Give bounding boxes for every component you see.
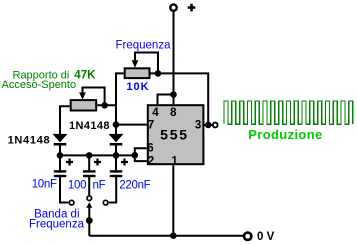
wire pin 6	[135, 148, 147, 155]
node pin6 junction	[132, 152, 139, 159]
wire pin 4 branch	[158, 95, 174, 105]
diode D1 1N4148	[53, 134, 68, 156]
wire 47K left lead down	[60, 106, 70, 134]
potentiometer VR1 10K	[125, 53, 158, 79]
svg-text:6: 6	[147, 143, 153, 155]
switch contact right	[103, 200, 108, 205]
wire capacitor rail	[60, 154, 135, 156]
svg-text:nF: nF	[93, 179, 106, 191]
wire pin 7	[116, 124, 147, 126]
svg-text:Produzione: Produzione	[248, 127, 322, 142]
node rail C2	[86, 152, 93, 159]
capacitor C1 10nF	[54, 155, 73, 202]
node pin1 ground junction	[170, 232, 177, 239]
svg-text:2: 2	[148, 155, 154, 167]
svg-text:100: 100	[68, 179, 86, 191]
switch contact middle	[87, 196, 92, 201]
switch wiper SW1	[86, 202, 92, 236]
IC U1 555	[147, 105, 203, 167]
node wiper dot	[86, 217, 93, 224]
svg-text:220nF: 220nF	[119, 179, 150, 191]
svg-text:0 V: 0 V	[257, 231, 275, 243]
svg-text:Frequenza: Frequenza	[116, 39, 172, 51]
wire 10K right lead to pin 3 net	[151, 73, 209, 125]
svg-text:8: 8	[170, 107, 177, 119]
svg-text:555: 555	[160, 127, 189, 143]
terminal 0V	[244, 231, 275, 243]
node rail D2	[113, 152, 120, 159]
wire pin 2	[135, 155, 147, 161]
svg-text:10nF: 10nF	[32, 179, 57, 191]
svg-text:4: 4	[152, 107, 159, 119]
svg-text:1N4148: 1N4148	[69, 120, 110, 132]
switch contact left	[69, 200, 74, 205]
node 47K wiper junction	[101, 102, 108, 109]
node pin3 junction	[205, 122, 212, 129]
capacitor C3 220nF	[109, 155, 128, 202]
svg-text:Frequenza: Frequenza	[29, 218, 85, 230]
svg-text:10K: 10K	[126, 81, 149, 93]
waveform output	[224, 101, 353, 124]
svg-text:7: 7	[148, 120, 154, 132]
wire supply vertical to pin 8	[173, 11, 175, 104]
node rail D1	[57, 152, 64, 159]
diode D2 1N4148	[109, 134, 124, 156]
svg-text:3: 3	[195, 120, 201, 132]
wire pin 3	[204, 124, 212, 126]
terminal output	[213, 123, 218, 128]
wire pin 1	[172, 165, 174, 236]
svg-text:47K: 47K	[74, 70, 96, 82]
node pin7 junction	[113, 121, 120, 128]
svg-text:Acceso-Spento: Acceso-Spento	[2, 79, 77, 91]
wire 10K left lead down	[116, 73, 124, 134]
potentiometer VR2 47K	[71, 88, 105, 111]
svg-text:1N4148: 1N4148	[8, 135, 51, 147]
wire ground rail	[89, 235, 243, 237]
svg-text:1: 1	[171, 155, 178, 167]
wire 47K right lead	[97, 104, 116, 106]
node 10K wiper junction	[155, 70, 162, 77]
capacitor C2 100nF	[83, 155, 101, 195]
node supply junction	[170, 91, 177, 98]
supply terminal +	[170, 4, 195, 12]
